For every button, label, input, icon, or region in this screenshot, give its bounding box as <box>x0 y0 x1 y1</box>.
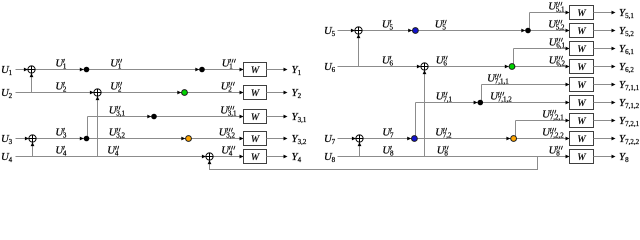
svg-text:W: W <box>251 65 260 76</box>
svg-text:W: W <box>577 98 586 109</box>
svg-text:W: W <box>251 134 260 145</box>
svg-text:W: W <box>577 44 586 55</box>
svg-text:W: W <box>251 112 260 123</box>
svg-text:W: W <box>577 134 586 145</box>
svg-text:W: W <box>577 26 586 37</box>
svg-text:W: W <box>577 62 586 73</box>
svg-text:W: W <box>577 152 586 163</box>
svg-text:W: W <box>577 80 586 91</box>
svg-text:W: W <box>577 8 586 19</box>
svg-text:W: W <box>577 116 586 127</box>
svg-text:W: W <box>251 88 260 99</box>
svg-text:W: W <box>251 152 260 163</box>
